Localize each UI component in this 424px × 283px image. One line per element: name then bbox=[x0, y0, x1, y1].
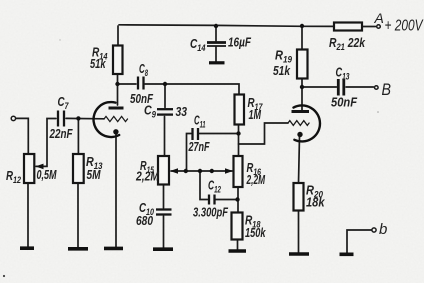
svg-text:27nF: 27nF bbox=[188, 139, 210, 154]
svg-text:3.300pF: 3.300pF bbox=[193, 205, 229, 220]
svg-text:b: b bbox=[379, 221, 387, 238]
svg-text:B: B bbox=[382, 80, 392, 99]
svg-text:22nF: 22nF bbox=[49, 126, 74, 141]
svg-text:33: 33 bbox=[176, 104, 188, 119]
svg-text:0,5M: 0,5M bbox=[37, 167, 58, 182]
svg-text:1M: 1M bbox=[249, 107, 262, 122]
svg-text:51k: 51k bbox=[90, 56, 106, 71]
svg-text:18k: 18k bbox=[306, 195, 325, 210]
svg-text:50nF: 50nF bbox=[331, 95, 358, 110]
svg-text:A: A bbox=[374, 10, 384, 26]
svg-text:51k: 51k bbox=[273, 63, 291, 78]
svg-text:150k: 150k bbox=[245, 225, 266, 240]
svg-text:2,2M: 2,2M bbox=[246, 172, 266, 187]
svg-text:2,2M: 2,2M bbox=[135, 169, 160, 184]
svg-text:5M: 5M bbox=[87, 167, 102, 182]
svg-text:+ 200V: + 200V bbox=[385, 18, 424, 35]
svg-text:16µF: 16µF bbox=[228, 35, 252, 50]
svg-text:680: 680 bbox=[136, 213, 154, 228]
